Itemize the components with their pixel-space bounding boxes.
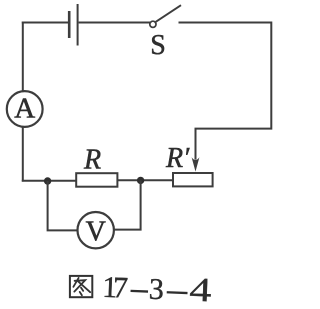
svg-text:A: A: [14, 92, 35, 124]
caption dash 2: [167, 291, 188, 294]
svg-text:7: 7: [112, 271, 128, 305]
caption hanzi TU enclosure: [70, 276, 92, 297]
main node wire left segment: [22, 180, 76, 182]
svg-text:3: 3: [148, 273, 164, 307]
rheostat slider arrowhead: [192, 157, 200, 171]
node dot right: [137, 177, 144, 184]
battery negative plate (short): [68, 11, 71, 38]
wire left vertical upper (corner to ammeter top): [22, 22, 24, 93]
wire switch to top-right corner, right vertical, and mid horizontal to slider: [179, 23, 272, 160]
svg-text:R′: R′: [165, 143, 190, 174]
caption dash 1: [131, 290, 148, 293]
ammeter A circle: [7, 91, 43, 127]
voltmeter branch left wire: [48, 181, 78, 230]
wire top-left horizontal to battery: [22, 22, 68, 24]
rheostat R' box: [173, 173, 213, 186]
switch S hinge: [150, 21, 156, 27]
voltmeter V circle: [78, 212, 114, 248]
svg-text:S: S: [150, 30, 166, 61]
wire left vertical lower (ammeter bottom to main node wire): [22, 127, 24, 182]
wire R to R' (through right junction): [118, 179, 174, 181]
resistor R box: [76, 173, 117, 187]
node dot left: [44, 177, 51, 184]
switch S lever (open blade): [156, 5, 181, 22]
battery positive plate (long): [77, 4, 79, 46]
svg-text:R: R: [83, 145, 101, 176]
svg-text:V: V: [86, 216, 106, 247]
voltmeter branch right wire: [114, 180, 141, 229]
caption hanzi TU inner strokes: [73, 278, 78, 287]
svg-text:4: 4: [189, 270, 213, 309]
wire battery to switch: [79, 22, 150, 24]
